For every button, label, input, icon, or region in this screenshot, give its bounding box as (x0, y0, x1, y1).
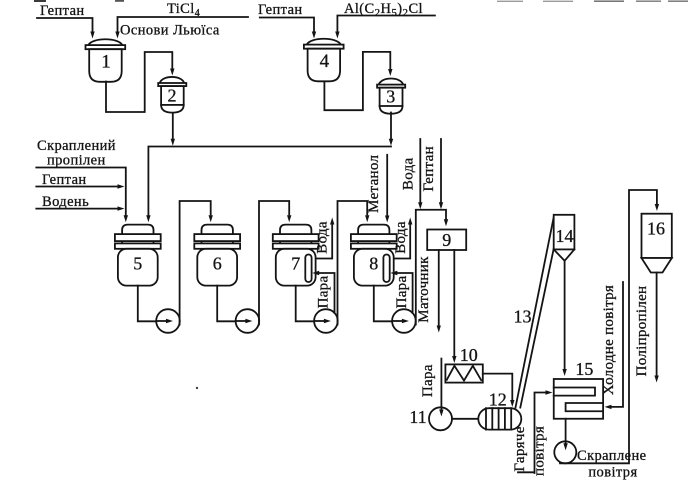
svg-text:4: 4 (320, 51, 330, 72)
svg-text:11: 11 (409, 407, 426, 427)
reactor 7 (273, 225, 319, 286)
wire propylene feed to vessel 5 (36, 168, 126, 216)
wire 11 to dryer 12 (452, 418, 478, 420)
wire pump discharge to next reactor (338, 201, 368, 325)
pump under reactor 8 (374, 286, 393, 322)
svg-text:1: 1 (101, 52, 111, 73)
svg-text:Водень: Водень (42, 194, 89, 210)
wire vessel 2 to catalyst manifold (172, 114, 174, 139)
svg-text:6: 6 (213, 254, 222, 274)
wire catalyst manifold to vessel 5 (148, 147, 391, 216)
pump under reactor 6 (217, 286, 236, 322)
svg-text:повітря: повітря (532, 426, 548, 476)
pneumatic transport line 13 (516, 216, 555, 408)
svg-text:Пара: Пара (316, 276, 332, 309)
blower 16 fan (554, 441, 576, 463)
scan speck (196, 387, 198, 389)
svg-text:15: 15 (575, 359, 593, 379)
dryer 12 (478, 408, 521, 429)
svg-text:13: 13 (514, 306, 532, 326)
reactor 5 (115, 225, 161, 286)
water outlet of coil 8 (394, 225, 410, 259)
svg-text:Гептан: Гептан (40, 3, 85, 19)
svg-text:14: 14 (556, 226, 574, 246)
svg-text:12: 12 (489, 390, 507, 410)
wire heptane line to vessel 1 (37, 18, 93, 31)
water outlet of coil 7 (316, 225, 332, 259)
svg-text:5: 5 (133, 254, 142, 274)
wire 9 to heat exchanger 10 (453, 250, 455, 356)
svg-text:7: 7 (291, 254, 300, 274)
vessel 3 (377, 79, 405, 114)
wire methanol to reactor 8 (386, 155, 388, 215)
wire cyclone outlet to 15 (564, 261, 566, 369)
pump under reactor 5 (138, 286, 157, 322)
svg-text:8: 8 (369, 254, 378, 274)
wire mother liquor outlet (438, 250, 440, 325)
vessel 2 (158, 77, 186, 113)
heating coil of reactor 8 (383, 255, 389, 283)
svg-text:16: 16 (647, 219, 665, 239)
wire pump discharge to next reactor (180, 201, 211, 325)
wire heptane to manifold (440, 139, 442, 202)
svg-text:Холодне повітря: Холодне повітря (601, 285, 617, 395)
vessel 1 (86, 39, 126, 82)
reactor 6 (194, 225, 240, 286)
wire polypropylene outlet (656, 273, 658, 376)
wire heptane feed (36, 186, 117, 188)
svg-text:Скраплене: Скраплене (577, 448, 646, 464)
svg-text:Маточник: Маточник (416, 256, 432, 323)
reactor 8 (351, 225, 397, 286)
svg-text:пропілен: пропілен (47, 153, 106, 169)
svg-text:Вода: Вода (393, 221, 409, 254)
pump under reactor 7 (296, 286, 315, 322)
wire 15 down into fan (565, 419, 567, 443)
wire Al(C2H5)2Cl line to vessel 4 (337, 16, 435, 32)
svg-text:3: 3 (386, 87, 395, 107)
wire vessel 3 to catalyst manifold (390, 113, 392, 139)
wire pump discharge to next reactor (259, 201, 289, 325)
svg-text:повітря: повітря (588, 465, 637, 480)
svg-text:Поліпропілен: Поліпропілен (634, 286, 650, 377)
heat exchanger 10 (445, 364, 482, 382)
air heater 15 (554, 379, 603, 419)
wire liquefied air line to silo 16 (560, 190, 657, 463)
cyclone 14 (554, 215, 575, 261)
steam inlet of coil 7 (320, 273, 335, 313)
wire vessel 4 to vessel 3 (324, 52, 390, 110)
svg-text:Основи Льюїса: Основи Льюїса (120, 23, 220, 39)
heating coil of reactor 7 (305, 255, 311, 283)
wire cold air into 15 (612, 282, 623, 407)
scan edge artifacts top (34, 0, 688, 2)
wire vessel 1 to vessel 2 (106, 52, 172, 112)
svg-text:Гаряче: Гаряче (512, 426, 528, 471)
apparatus 9 centrifuge (427, 230, 466, 251)
wire water to manifold (419, 139, 421, 202)
blower 11 (429, 407, 452, 430)
svg-text:Вода: Вода (315, 221, 331, 254)
wire heptane line to vessel 4 (260, 18, 314, 32)
svg-text:Пара: Пара (394, 276, 410, 309)
svg-text:9: 9 (442, 230, 451, 250)
wire steam into 11 (440, 359, 442, 409)
svg-text:2: 2 (168, 86, 177, 106)
wire TiCl4 line to vessel 1 (118, 17, 249, 31)
svg-text:Вода: Вода (401, 157, 417, 190)
svg-text:Гептан: Гептан (421, 146, 437, 191)
wire hydrogen feed (36, 208, 117, 210)
steam inlet of coil 8 (398, 273, 413, 313)
wire 10 to dryer 12 (483, 374, 513, 400)
svg-text:Метанол: Метанол (366, 155, 382, 213)
wire pump 8 discharge and manifold into apparatus 9 (416, 210, 446, 325)
wire hot air into 15 (518, 393, 545, 474)
svg-text:Пара: Пара (420, 364, 436, 397)
svg-text:Гептан: Гептан (258, 2, 303, 18)
svg-text:10: 10 (460, 345, 478, 365)
vessel 4 (304, 39, 344, 82)
silo 16 (642, 214, 672, 273)
